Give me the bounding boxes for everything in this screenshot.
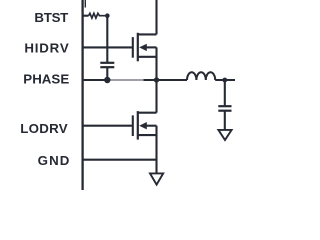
svg-text:LODRV: LODRV (20, 121, 68, 136)
svg-text:HIDRV: HIDRV (24, 41, 68, 56)
svg-text:GND: GND (38, 153, 70, 168)
svg-text:PHASE: PHASE (23, 71, 69, 86)
svg-text:BTST: BTST (34, 10, 68, 25)
